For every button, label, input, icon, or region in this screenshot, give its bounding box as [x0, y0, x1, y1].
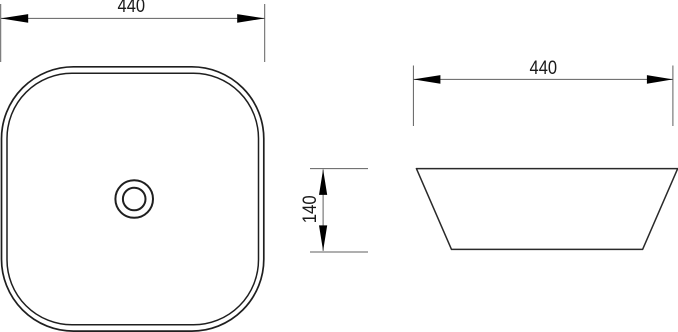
svg-text:440: 440 — [118, 0, 146, 17]
svg-text:140: 140 — [300, 195, 321, 223]
svg-text:440: 440 — [530, 58, 558, 79]
